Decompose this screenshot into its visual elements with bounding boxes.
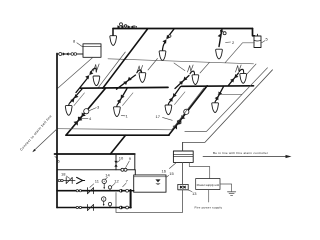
- svg-text:9: 9: [129, 156, 132, 161]
- pump header vertical: [130, 190, 132, 208]
- floor2 left branch pipe: [81, 86, 169, 89]
- label 16: [162, 162, 177, 173]
- suction line with fdc fork: [58, 177, 84, 183]
- svg-text:16: 16: [162, 169, 167, 174]
- svg-text:17: 17: [156, 114, 161, 119]
- riser diagonal D1 from top pipe to floor2 pipe: [103, 29, 148, 88]
- svg-text:1: 1: [126, 113, 129, 118]
- thin riser to cylinder 5: [225, 43, 255, 63]
- sprinkler S2: [216, 49, 223, 59]
- floor3 slab corner diagonal: [172, 88, 204, 130]
- label 15: [166, 171, 174, 177]
- floor3 slab line: [57, 129, 172, 130]
- label 1a: [121, 113, 128, 118]
- sprinkler branch B2: [117, 89, 127, 108]
- label 3: [89, 105, 100, 111]
- sprinkler branch B3: [168, 87, 180, 106]
- wire alarm valve to power unit: [189, 162, 209, 178]
- svg-text:4: 4: [89, 116, 92, 121]
- tank outlet thin diagonal: [58, 58, 93, 89]
- bypass drop to reservoir: [134, 170, 136, 175]
- sprinkler head A3: [192, 75, 199, 85]
- water tank 8: [83, 44, 101, 58]
- sprinkler head B3: [165, 105, 172, 115]
- main riser vertical: [56, 54, 58, 208]
- signal valve on D3: [173, 115, 186, 129]
- sprinkler branch B1: [69, 89, 82, 106]
- slab bottom right edge: [218, 93, 242, 95]
- sprinkler S2': [159, 51, 166, 61]
- wire power unit to ground: [220, 184, 232, 192]
- wire top main pipe: [113, 28, 253, 30]
- pump line 1: [57, 186, 131, 194]
- label 7: [123, 178, 129, 187]
- sprinkler head A2: [139, 73, 146, 83]
- riser diagonal D4: [110, 135, 125, 154]
- label 18: [61, 172, 70, 179]
- slab left end twin diagonal: [98, 52, 126, 88]
- svg-text:Connect to alarm bell line: Connect to alarm bell line: [19, 114, 52, 151]
- wire alarm valve down: [182, 162, 184, 184]
- wire top pipe right drop: [253, 29, 255, 36]
- riser diagonal D3 floor3 to floor2 right: [169, 86, 207, 135]
- svg-text:8: 8: [73, 38, 76, 43]
- header to reservoir corner: [131, 190, 134, 192]
- slab tick: [148, 59, 158, 71]
- svg-text:3: 3: [97, 105, 100, 110]
- svg-text:13: 13: [192, 191, 197, 196]
- svg-text:10: 10: [119, 156, 124, 161]
- sprinkler head A1: [93, 76, 100, 86]
- bypass right vertical: [134, 154, 136, 170]
- sprinkler head B4: [212, 103, 219, 113]
- svg-text:Be in line with Fire alarm con: Be in line with Fire alarm controller: [213, 151, 268, 155]
- sprinkler branch B4: [215, 87, 224, 104]
- svg-text:12: 12: [114, 178, 119, 183]
- signal valve on D2: [73, 112, 85, 125]
- motor valve 13: [178, 184, 188, 189]
- label 4: [82, 116, 92, 121]
- tank inlet pipe with valves: [57, 52, 83, 55]
- gauge over pump line 2: [102, 197, 106, 206]
- label 11: [90, 179, 100, 188]
- svg-text:5: 5: [266, 37, 269, 42]
- label 5: [262, 37, 269, 43]
- sprinkler head B2: [114, 107, 121, 117]
- floor2 right branch pipe: [182, 85, 254, 88]
- sprinkler S0: [110, 36, 117, 46]
- label 6: [55, 156, 61, 163]
- reservoir 15: [134, 175, 166, 192]
- branch twin line B2: [123, 93, 134, 106]
- break mark: [137, 65, 143, 72]
- sprinkler group A2: [117, 70, 142, 89]
- pump line 2: [57, 202, 131, 210]
- sprinkler group A1: [76, 68, 96, 92]
- slab tick: [247, 64, 257, 75]
- wire drop to sprinkler S0: [112, 29, 114, 37]
- svg-text:Fire power supply: Fire power supply: [195, 205, 223, 209]
- outer corner line 2 (riser to alarm valve): [183, 70, 273, 143]
- wire power unit down: [208, 190, 210, 203]
- svg-text:18: 18: [61, 172, 66, 177]
- alarm bell leader arrow: [32, 129, 57, 152]
- branch twin line B1: [74, 93, 85, 106]
- label 13: [188, 190, 197, 196]
- branch to sprinkler S2': [162, 29, 174, 52]
- sprinkler group A3: [174, 63, 195, 89]
- sprinkler head B1: [65, 106, 72, 116]
- label 14: [105, 173, 110, 179]
- svg-text:11: 11: [95, 179, 100, 184]
- slab tick: [200, 62, 210, 73]
- floor4 main pipe H4: [55, 153, 135, 155]
- sprinkler group A4: [229, 69, 244, 85]
- floor3 main pipe: [66, 134, 169, 136]
- svg-text:6: 6: [58, 158, 61, 163]
- gauge over pump line 1: [102, 179, 106, 189]
- sprinkler head A4: [240, 74, 247, 84]
- branch twin line B3: [175, 92, 186, 105]
- outer corner line 1: [185, 68, 268, 132]
- svg-text:15: 15: [169, 171, 174, 176]
- valve assembly on top pipe: [117, 23, 137, 29]
- alarm valve riser stub: [182, 142, 184, 151]
- flow indicator 3 on D2: [84, 109, 89, 114]
- ground: [228, 192, 236, 196]
- label 12: [111, 178, 119, 187]
- svg-text:2: 2: [232, 40, 235, 45]
- arrow to fire alarm controller: [203, 155, 292, 158]
- svg-text:Power supply unit: Power supply unit: [197, 183, 220, 187]
- label 17: [156, 114, 173, 121]
- bypass left vertical with valve 10: [114, 154, 117, 170]
- power supply unit box: [196, 179, 220, 190]
- svg-text:7: 7: [126, 178, 129, 183]
- riser diagonal D2 floor2 to floor3: [66, 88, 106, 135]
- alarm valve 16: [173, 151, 193, 162]
- slab top edge: [108, 59, 254, 64]
- break mark: [236, 65, 242, 72]
- label 8: [73, 38, 83, 47]
- exhaust cylinder 5: [254, 34, 261, 47]
- break mark: [94, 64, 100, 71]
- svg-text:14: 14: [105, 173, 110, 178]
- label 9: [126, 156, 132, 168]
- label 2: [226, 40, 236, 45]
- label 10: [117, 156, 124, 163]
- flow indicator on D3: [184, 109, 189, 114]
- break mark: [188, 65, 194, 72]
- branch to sprinkler S2: [218, 29, 226, 47]
- drain loop wire: [116, 190, 183, 213]
- bypass bottom line with coupling 9: [57, 168, 135, 171]
